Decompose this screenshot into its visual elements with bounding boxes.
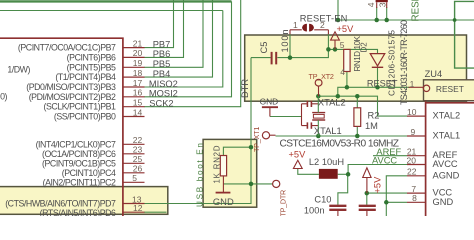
resistor R2 bbox=[354, 108, 361, 127]
svg-text:L2 10uH: L2 10uH bbox=[309, 157, 344, 167]
resistor RN2D bbox=[220, 156, 226, 176]
power +5V arrow right bbox=[363, 168, 371, 193]
wire +5V rail to RN1D and D2 bbox=[328, 49, 377, 53]
wire D2 bottom bbox=[377, 68, 379, 87]
IC ZU4 left pins bbox=[407, 116, 426, 202]
power +5V arrow mid bbox=[293, 160, 302, 168]
wire AVCC bbox=[348, 165, 407, 175]
svg-text:AVCC: AVCC bbox=[433, 159, 458, 169]
svg-text:20: 20 bbox=[133, 48, 143, 58]
wire ZU4 to IC bbox=[425, 101, 427, 103]
component top edge jumper body bbox=[376, 0, 388, 2]
wire bus top horizontal 1 bbox=[0, 0, 232, 2]
svg-text:2: 2 bbox=[320, 20, 325, 30]
wire top right horizontal bbox=[338, 19, 474, 21]
svg-text:(PD0/MISO/PCINT3)PB3: (PD0/MISO/PCINT3)PB3 bbox=[26, 82, 116, 92]
IC U3 right pins group 1 bbox=[123, 48, 145, 117]
wire GND8 bbox=[386, 201, 407, 203]
svg-text:20: 20 bbox=[407, 155, 417, 165]
wire AREF bbox=[373, 155, 407, 157]
wire bus top horizontal 2 bbox=[0, 10, 223, 12]
svg-text:XTAL2: XTAL2 bbox=[318, 97, 346, 107]
reset block ZU4 box bbox=[424, 80, 474, 101]
wire SCK2 bbox=[144, 0, 241, 107]
svg-text:TS42031-160R-TR-7260: TS42031-160R-TR-7260 bbox=[399, 20, 409, 105]
svg-text:(CTS/HWB/AIN6/TO/INT7)PD7: (CTS/HWB/AIN6/TO/INT7)PD7 bbox=[5, 199, 116, 209]
wire PB5 bbox=[144, 0, 203, 67]
wire jumper pin4 drop bbox=[376, 7, 378, 20]
junction AVCC L2 node bbox=[346, 172, 351, 177]
svg-text:RESET: RESET bbox=[367, 79, 398, 89]
svg-text:1/DW): 1/DW) bbox=[7, 65, 30, 75]
svg-text:12: 12 bbox=[133, 203, 143, 213]
resonator rail and caps bbox=[301, 104, 303, 126]
svg-text:+5V: +5V bbox=[373, 176, 383, 194]
solder jumper RESET-EN pads bbox=[302, 24, 307, 32]
junction jumper pin3 bbox=[384, 18, 389, 23]
svg-text:19: 19 bbox=[133, 58, 143, 68]
junction VCC node bbox=[365, 191, 370, 196]
svg-text:(T1/PCINT4)PB4: (T1/PCINT4)PB4 bbox=[55, 72, 116, 82]
junction right loop bbox=[453, 18, 457, 22]
svg-text:XTAL1: XTAL1 bbox=[433, 130, 461, 140]
junction RN1D reset bbox=[345, 85, 350, 90]
diode D2 bbox=[370, 54, 385, 66]
wire MISO2 bbox=[144, 11, 223, 88]
wire PD7 DTR net bbox=[144, 58, 251, 204]
wire RN2D top link bbox=[223, 147, 251, 155]
svg-text:TP_XT2: TP_XT2 bbox=[309, 72, 334, 81]
svg-text:AVCC: AVCC bbox=[372, 156, 397, 166]
highlight box USB boot En bbox=[203, 139, 257, 207]
svg-text:16: 16 bbox=[133, 88, 143, 98]
IC U3 right pins group 2 bbox=[123, 144, 145, 212]
wire PB4 bbox=[144, 0, 213, 77]
svg-text:(AIN2/PCINT11)PC2: (AIN2/PCINT11)PC2 bbox=[43, 177, 116, 187]
svg-text:SCK2: SCK2 bbox=[149, 99, 173, 109]
capacitor C5 bbox=[272, 52, 277, 65]
svg-text:21: 21 bbox=[133, 38, 143, 48]
wire PB6 bbox=[144, 0, 184, 57]
svg-text:AGND: AGND bbox=[433, 170, 460, 180]
wire XTAL1 net bbox=[276, 135, 408, 137]
wire jumper pin3 drop bbox=[386, 7, 388, 20]
svg-text:1K RN2D: 1K RN2D bbox=[212, 145, 221, 183]
wire PD6 stub bbox=[144, 211, 167, 213]
svg-text:5: 5 bbox=[340, 40, 345, 50]
resistor RN1D bbox=[344, 49, 350, 71]
svg-text:MISO2: MISO2 bbox=[149, 79, 178, 89]
junction R2 top node bbox=[355, 94, 360, 99]
svg-text:C5: C5 bbox=[259, 42, 269, 54]
svg-text:MOSI2: MOSI2 bbox=[149, 89, 178, 99]
svg-text:5: 5 bbox=[132, 173, 137, 183]
junction top x338 bbox=[336, 18, 341, 23]
svg-text:23: 23 bbox=[133, 145, 143, 155]
svg-text:PB7: PB7 bbox=[153, 39, 171, 49]
svg-text:18: 18 bbox=[133, 68, 143, 78]
junction RN2D top bbox=[249, 145, 254, 150]
wire R2 bottom stub bbox=[356, 126, 358, 136]
wire jumper pin1 drop bbox=[289, 34, 291, 58]
svg-text:22: 22 bbox=[133, 135, 143, 145]
capacitor C7 bbox=[359, 206, 376, 210]
svg-text:USB boot En: USB boot En bbox=[196, 143, 205, 207]
wire AGND bbox=[386, 176, 407, 216]
svg-text:22: 22 bbox=[407, 167, 417, 177]
svg-text:1: 1 bbox=[410, 79, 415, 89]
svg-text:10: 10 bbox=[407, 107, 417, 117]
svg-text:(RTS/AIN5/INT6)PD6: (RTS/AIN5/INT6)PD6 bbox=[40, 208, 116, 216]
testpoint TP_XT2 bbox=[315, 79, 322, 86]
svg-text:(OC1A/PCINT8)PC6: (OC1A/PCINT8)PC6 bbox=[42, 149, 116, 159]
svg-text:0): 0) bbox=[0, 91, 7, 101]
svg-text:RESET: RESET bbox=[436, 84, 464, 94]
wire VCC bbox=[367, 192, 407, 194]
svg-text:26: 26 bbox=[133, 164, 143, 174]
svg-text:C10: C10 bbox=[314, 194, 331, 204]
wire jumper pin2 drop bbox=[327, 34, 329, 50]
svg-text:25: 25 bbox=[133, 154, 143, 164]
solder jumper RESET-EN pins bbox=[290, 30, 328, 34]
svg-text:17: 17 bbox=[133, 78, 143, 88]
svg-text:PB4: PB4 bbox=[153, 69, 171, 79]
crystal Y1 body bbox=[312, 113, 325, 120]
component top edge jumper pins bbox=[377, 2, 387, 8]
svg-text:TP_XT1: TP_XT1 bbox=[252, 127, 261, 152]
svg-text:(SS/PCINT0)PB0: (SS/PCINT0)PB0 bbox=[54, 112, 116, 122]
svg-text:D2: D2 bbox=[359, 42, 368, 53]
svg-text:1: 1 bbox=[293, 20, 298, 30]
inductor L2 bbox=[319, 169, 338, 179]
power +5V arrow top bbox=[331, 32, 340, 50]
IC ZU4 ATmega328 outline bbox=[426, 103, 474, 216]
junction crystal xtal1 bbox=[316, 134, 321, 139]
svg-text:(INT4/ICP1/CLK0)PC7: (INT4/ICP1/CLK0)PC7 bbox=[36, 139, 116, 149]
svg-text:100n: 100n bbox=[280, 30, 290, 53]
wire +5V to L2 bbox=[298, 169, 319, 175]
svg-text:100n: 100n bbox=[304, 206, 325, 216]
svg-text:(SCLK/PCINT1)PB1: (SCLK/PCINT1)PB1 bbox=[44, 102, 117, 112]
wire RN2D bottom link bbox=[223, 183, 251, 185]
svg-text:GND: GND bbox=[433, 197, 454, 207]
wire RESET net bbox=[338, 87, 410, 96]
svg-text:3: 3 bbox=[378, 2, 388, 7]
testpoint TP_XT1 bbox=[262, 132, 269, 139]
highlight band PD7 row bbox=[0, 187, 168, 215]
svg-text:(PDI/MOSI/PCINT2)PB2: (PDI/MOSI/PCINT2)PB2 bbox=[29, 92, 116, 102]
junction TP_DTR node bbox=[249, 182, 254, 187]
wire PB7 bbox=[144, 0, 174, 48]
wire C5 left bbox=[251, 57, 271, 59]
svg-text:(PCINT7/OC0A/OC1C)PB7: (PCINT7/OC0A/OC1C)PB7 bbox=[18, 43, 116, 53]
svg-text:+5V: +5V bbox=[289, 150, 307, 160]
svg-text:XTAL1: XTAL1 bbox=[314, 126, 342, 136]
svg-text:DTR: DTR bbox=[240, 79, 250, 98]
junction TP_XT2 node bbox=[316, 94, 321, 99]
ground symbol resonator bbox=[262, 106, 278, 108]
svg-text:+5V: +5V bbox=[337, 24, 355, 34]
svg-text:4: 4 bbox=[340, 67, 345, 77]
wire C10 riser bbox=[338, 174, 348, 205]
wire right edge loop bbox=[455, 1, 474, 68]
svg-text:XTAL2: XTAL2 bbox=[433, 110, 461, 120]
junction reset-xtal2 bbox=[336, 94, 341, 99]
wire XTAL2 net bbox=[318, 96, 407, 116]
svg-text:(PCINT10)PC4: (PCINT10)PC4 bbox=[62, 168, 116, 178]
wire resonator ground bbox=[270, 116, 302, 118]
junction AGND GND8 node bbox=[384, 200, 389, 205]
svg-text:ZU4: ZU4 bbox=[425, 69, 443, 79]
svg-text:1M: 1M bbox=[365, 121, 378, 131]
junction jumper2 rail bbox=[326, 47, 331, 52]
wire top right vertical x338 bbox=[337, 0, 339, 20]
highlight box DTR/reset circuit bbox=[245, 35, 467, 101]
svg-text:(PCINT5)PB5: (PCINT5)PB5 bbox=[67, 62, 116, 72]
ground symbol RN2D bbox=[222, 176, 224, 192]
svg-text:TP_DTR: TP_DTR bbox=[278, 190, 287, 216]
wire RN1D bottom bbox=[346, 72, 348, 88]
svg-text:GND: GND bbox=[260, 96, 279, 106]
junction C5 right bbox=[288, 55, 293, 60]
wire C7 to VCC node bbox=[366, 193, 368, 205]
junction D2 reset bbox=[375, 85, 380, 90]
wire TP_DTR branch bbox=[251, 183, 273, 185]
wire C5 right to jumper bbox=[277, 49, 328, 57]
capacitor C10 bbox=[329, 206, 346, 210]
junction R2 bottom node bbox=[355, 134, 360, 139]
crystal Y1 terminals bbox=[317, 96, 319, 136]
svg-text:PB5: PB5 bbox=[153, 59, 171, 69]
svg-text:9: 9 bbox=[410, 127, 415, 137]
svg-text:14: 14 bbox=[133, 107, 143, 117]
junction +5V rail bbox=[333, 47, 338, 52]
pin circle ZU4 reset bbox=[409, 86, 424, 88]
svg-text:8: 8 bbox=[412, 193, 417, 203]
testpoint TP_DTR bbox=[273, 180, 280, 187]
svg-text:PB6: PB6 bbox=[153, 49, 171, 59]
svg-text:(PCINT6)PB6: (PCINT6)PB6 bbox=[67, 52, 116, 62]
svg-text:R2: R2 bbox=[368, 111, 380, 121]
svg-text:15: 15 bbox=[133, 98, 143, 108]
wire R2 top stub bbox=[356, 96, 358, 108]
junction jumper pin4 bbox=[374, 18, 379, 23]
wire L2 to AVCC node bbox=[338, 173, 348, 175]
wire MOSI2 bbox=[144, 1, 232, 96]
svg-text:(PCINT9/OC1B)PC5: (PCINT9/OC1B)PC5 bbox=[42, 158, 116, 168]
IC U3 ATmega16U2 outline bbox=[0, 38, 123, 216]
svg-text:RESET: RESET bbox=[411, 0, 422, 22]
svg-text:GND: GND bbox=[213, 196, 234, 207]
svg-text:4: 4 bbox=[366, 2, 376, 7]
